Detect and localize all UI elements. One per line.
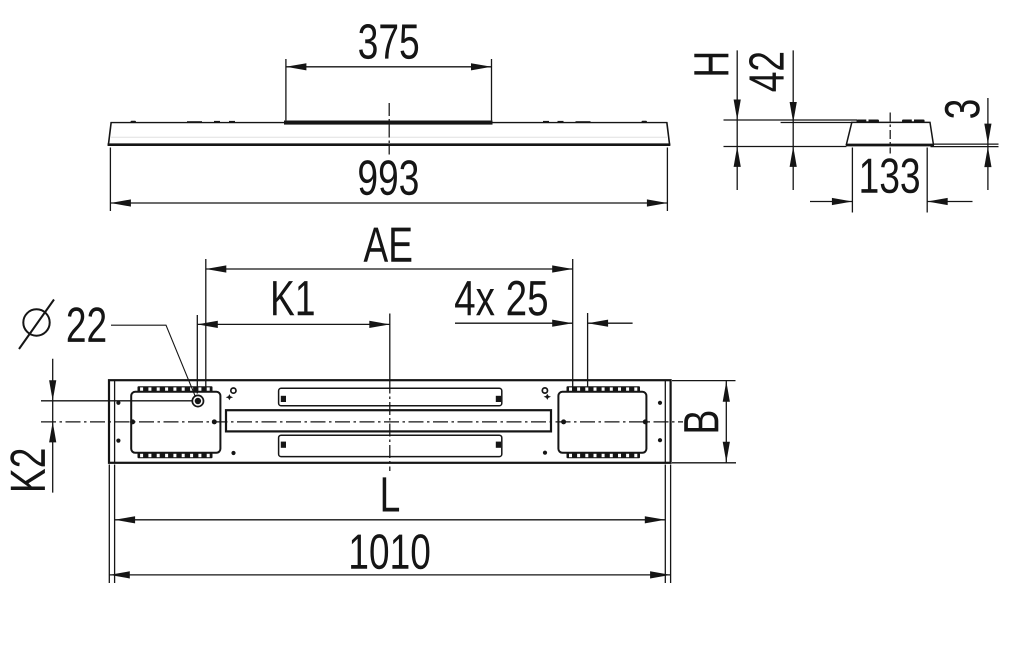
- dim K2 dimension line with outside arrows: [52, 359, 54, 493]
- dim text 4x 25: [455, 281, 547, 316]
- end-view trapezoid body: [846, 122, 933, 144]
- inner end-cap lines: [114, 380, 116, 463]
- side view centre line: [388, 103, 390, 155]
- dim 3 dimension line with arrows: [987, 98, 989, 190]
- dim text 3 (rotated): [945, 100, 980, 118]
- diameter symbol: [23, 309, 49, 335]
- small holes below ring holes: [231, 451, 235, 455]
- dim text 42 (rotated): [749, 53, 784, 92]
- centre line vertical: [389, 314, 391, 381]
- dim AE dimension line: [206, 268, 573, 270]
- clips on top edge: [131, 121, 137, 123]
- dim H dimension line with arrows: [736, 50, 738, 190]
- H reference line (top of clips): [724, 119, 858, 121]
- right box top clamp strip: [567, 386, 641, 391]
- dim text K1: [273, 281, 314, 315]
- 42 reference line (top of trapezoid): [781, 122, 853, 124]
- left gear box: [131, 392, 220, 453]
- fixing hole (diam 22): [192, 395, 203, 406]
- star marks: [226, 394, 233, 400]
- dim 375 dimension line: [286, 66, 492, 68]
- dim text B (rotated): [684, 412, 718, 432]
- dim text 993: [359, 160, 418, 195]
- right box bottom clamp strip: [567, 453, 641, 458]
- plan view outer housing: [109, 380, 671, 463]
- dim L / 1010 extension lines: [108, 465, 110, 584]
- dim text 22: [68, 307, 106, 342]
- end view centre line: [889, 113, 891, 154]
- clips on end-view top: [857, 120, 880, 123]
- dim L dimension line: [115, 519, 666, 521]
- dim text 133: [861, 158, 919, 193]
- dim 42 dimension line with arrows: [792, 50, 794, 190]
- left box top clamp strip: [138, 386, 213, 391]
- dim 993 dimension line: [110, 202, 667, 204]
- luminaire side profile body: [111, 122, 667, 124]
- dim 133 dimension line with outside arrows: [810, 201, 852, 203]
- dim 133 extension lines: [851, 148, 853, 213]
- leader line from 22 to hole: [111, 325, 195, 396]
- dim text H (rotated): [694, 54, 728, 75]
- centre line horizontal: [41, 421, 683, 423]
- dim K1 extension line: [196, 315, 198, 394]
- lower mounting rail: [279, 435, 502, 456]
- dim B dimension line: [725, 381, 727, 463]
- dim text 375: [359, 24, 418, 59]
- dim text L: [383, 477, 399, 511]
- dim 4x25 dimension lines with outside arrows: [455, 322, 573, 324]
- raised cover plate (375 zone) on top of profile: [284, 121, 493, 125]
- dim text 1010: [351, 534, 429, 569]
- ceiling line left of trapezoid: [724, 146, 847, 148]
- upper mounting rail: [279, 388, 502, 405]
- dim 993 extension lines: [109, 148, 111, 212]
- dim K1 dimension line: [197, 323, 389, 325]
- dim AE extension lines: [205, 259, 207, 388]
- dim text AE: [364, 228, 412, 262]
- right gear box: [558, 392, 646, 453]
- dim 375 extension lines: [285, 59, 287, 120]
- central gear tray bar: [226, 410, 551, 431]
- ring holes: [231, 388, 236, 393]
- ceiling lines right of trapezoid (3mm pair): [933, 143, 999, 145]
- K2 reference line to fixing hole row: [41, 400, 192, 402]
- faint seam line inside profile: [111, 136, 667, 138]
- left box bottom clamp strip: [138, 453, 213, 458]
- dim B extension lines: [672, 380, 736, 382]
- dim text K2 (rotated): [10, 450, 45, 491]
- dim 1010 dimension line: [109, 574, 670, 576]
- small holes near end caps: [116, 401, 120, 405]
- dim 4x25 extension line (right slot edge): [587, 313, 589, 387]
- dots on gear box edges (centre line): [130, 419, 135, 424]
